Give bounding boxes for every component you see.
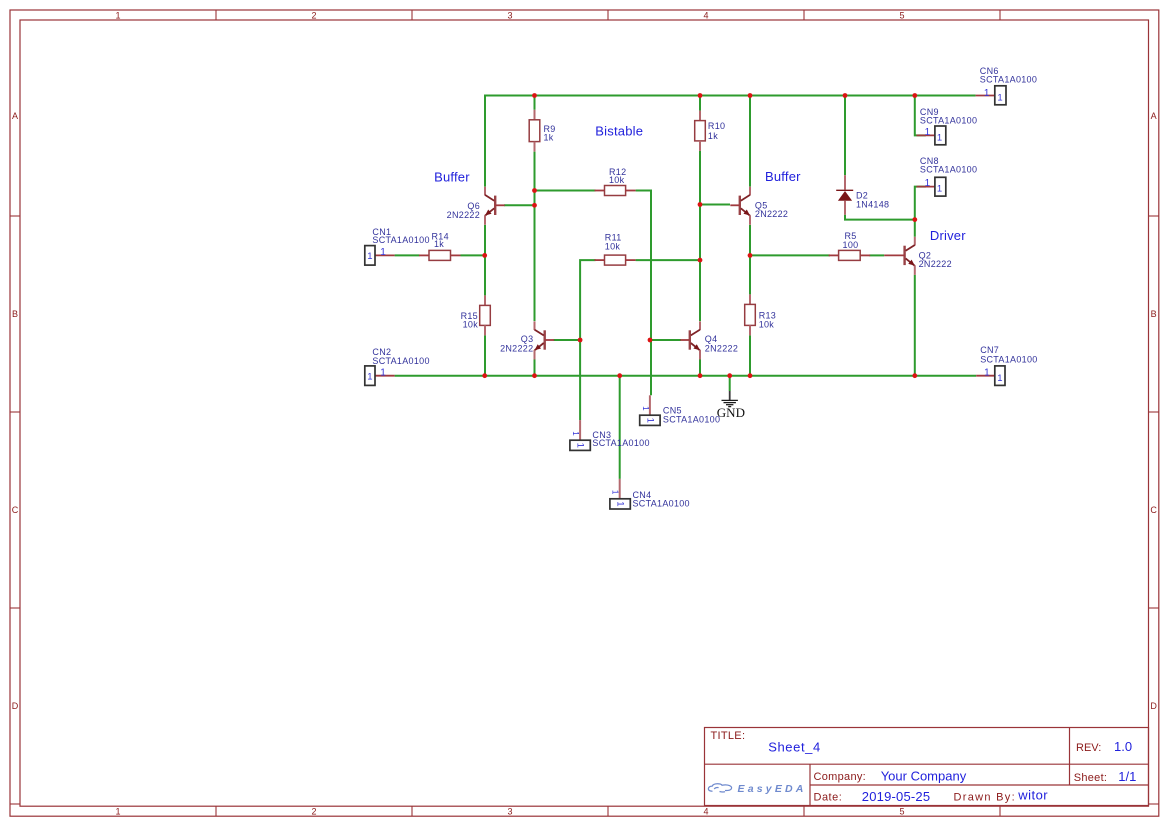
svg-text:1: 1 xyxy=(925,127,931,138)
junction bottom rail / Q3 emitter xyxy=(532,373,537,378)
label D2 value xyxy=(856,191,889,210)
svg-text:SCTA1A0100: SCTA1A0100 xyxy=(372,356,429,366)
resistor R11 xyxy=(595,255,636,265)
svg-text:1: 1 xyxy=(367,251,373,262)
title block drawn by value witor xyxy=(1017,787,1048,802)
svg-text:D: D xyxy=(1150,701,1157,711)
junction bottom rail / Q2 emitter xyxy=(912,373,917,378)
svg-text:1: 1 xyxy=(614,501,625,506)
svg-text:Buffer: Buffer xyxy=(765,169,801,184)
wire node to R5 xyxy=(749,254,830,256)
connector CN8 xyxy=(917,177,946,196)
svg-text:B: B xyxy=(12,309,18,319)
resistor R12 xyxy=(595,186,636,196)
title block Sheet value 1/1 xyxy=(1118,769,1136,784)
svg-text:1: 1 xyxy=(380,368,386,379)
svg-text:3: 3 xyxy=(507,10,512,20)
svg-text:SCTA1A0100: SCTA1A0100 xyxy=(592,438,649,448)
label Q5 value xyxy=(755,200,788,219)
svg-text:2: 2 xyxy=(311,807,316,817)
svg-text:1: 1 xyxy=(611,490,620,495)
svg-text:1: 1 xyxy=(115,807,120,817)
svg-text:2N2222: 2N2222 xyxy=(755,209,788,219)
svg-text:1: 1 xyxy=(997,93,1003,104)
junction bottom rail / R13 xyxy=(748,373,753,378)
junction bottom rail / R15 xyxy=(482,373,487,378)
pin number CN9 outside xyxy=(925,127,931,138)
diode D2 xyxy=(836,175,853,215)
title block Date label xyxy=(814,792,843,804)
wire CN8 elbow down to Q2 collector xyxy=(915,187,926,237)
svg-text:SCTA1A0100: SCTA1A0100 xyxy=(920,116,977,126)
junction Q5 emitter / R5 xyxy=(748,253,753,258)
annotation Buffer left xyxy=(434,170,470,185)
wire R10 to Q4 collector xyxy=(699,151,701,321)
wire top rail xyxy=(485,95,976,97)
svg-text:10k: 10k xyxy=(759,319,775,329)
pin number CN8 outside xyxy=(925,178,931,189)
wire Q4 emitter to bottom rail xyxy=(699,360,701,376)
title block company value Your Company xyxy=(881,768,967,783)
connector CN9 xyxy=(917,126,946,145)
svg-text:1k: 1k xyxy=(434,239,444,249)
svg-text:R10: R10 xyxy=(708,121,725,131)
wire bottom rail xyxy=(395,375,977,377)
label R12 value xyxy=(609,167,626,185)
pin number CN3 inside xyxy=(574,443,585,448)
wire CN1 to R14 xyxy=(395,254,420,256)
svg-text:Sheet_4: Sheet_4 xyxy=(768,740,821,755)
svg-text:2N2222: 2N2222 xyxy=(500,343,533,353)
label R14 value xyxy=(432,231,449,249)
connector CN7 xyxy=(976,366,1005,386)
wire Q3 base xyxy=(554,339,582,341)
frame row labels right xyxy=(1150,111,1157,711)
resistor R13 xyxy=(745,294,756,335)
svg-text:SCTA1A0100: SCTA1A0100 xyxy=(633,499,690,509)
frame column ticks top xyxy=(216,10,1000,20)
svg-text:A: A xyxy=(1151,111,1157,121)
junction top rail / CN9 xyxy=(912,93,917,98)
svg-text:1k: 1k xyxy=(708,131,718,141)
svg-text:1: 1 xyxy=(641,406,650,411)
title block outline xyxy=(705,728,1149,806)
wire Q5 base xyxy=(699,204,730,206)
wire R14 to node xyxy=(461,254,487,256)
wire top rail to CN9 xyxy=(915,95,926,136)
label CN9 xyxy=(920,107,977,125)
svg-text:Driver: Driver xyxy=(930,228,966,243)
wire Q6 emitter down xyxy=(484,225,486,296)
title block date value 2019-05-25 xyxy=(862,789,931,804)
wire D2 anode elbow to node xyxy=(845,215,916,220)
wire R9 to Q3 collector xyxy=(534,152,536,322)
svg-text:witor: witor xyxy=(1017,787,1048,802)
junction bottom rail / Q4 emitter xyxy=(698,373,703,378)
title block Drawn By label xyxy=(954,792,1016,804)
label Q2 value xyxy=(919,251,952,270)
svg-text:Company:: Company: xyxy=(814,771,867,783)
annotation Driver xyxy=(930,228,966,243)
svg-text:100: 100 xyxy=(843,240,859,250)
transistor Q4 xyxy=(680,321,700,359)
svg-text:2N2222: 2N2222 xyxy=(919,259,952,269)
resistor R14 xyxy=(419,250,461,260)
pin number CN2 inside xyxy=(367,372,373,383)
connector CN3 xyxy=(570,420,590,450)
annotation Bistable xyxy=(595,124,643,139)
junction top rail / R9 xyxy=(532,93,537,98)
transistor Q3 xyxy=(535,321,555,359)
junction bottom rail / GND xyxy=(727,373,732,378)
svg-text:1: 1 xyxy=(367,372,373,383)
svg-text:D: D xyxy=(12,701,19,711)
title block REV label xyxy=(1076,742,1101,754)
connector CN1 xyxy=(365,246,395,266)
svg-text:1: 1 xyxy=(115,10,120,20)
label CN8 xyxy=(920,156,977,174)
wire Q6 base xyxy=(504,204,536,206)
svg-text:1N4148: 1N4148 xyxy=(856,199,889,209)
title block REV value 1.0 xyxy=(1114,739,1132,754)
svg-text:1: 1 xyxy=(937,184,943,195)
frame row ticks right xyxy=(1149,216,1159,804)
ground GND xyxy=(722,391,738,407)
transistor Q5 xyxy=(730,187,750,225)
resistor R10 xyxy=(695,111,706,151)
wire Q2 emitter to bottom rail xyxy=(914,275,916,376)
svg-text:1: 1 xyxy=(574,443,585,448)
resistor R15 xyxy=(480,295,491,335)
EasyEDA logo xyxy=(708,783,806,795)
wire Q5 emitter to R13 xyxy=(749,225,751,295)
wire R15 to bottom rail xyxy=(484,335,486,375)
svg-text:1: 1 xyxy=(997,373,1003,384)
label R5 value xyxy=(843,231,859,250)
svg-text:1k: 1k xyxy=(544,133,554,143)
pin number CN7 inside xyxy=(997,373,1003,384)
wire node to R12 xyxy=(535,190,596,192)
frame column labels bottom xyxy=(115,807,904,817)
pin number CN3 outside xyxy=(571,431,580,436)
svg-text:SCTA1A0100: SCTA1A0100 xyxy=(663,414,720,424)
label CN4 xyxy=(633,490,690,509)
connector CN5 xyxy=(640,395,660,425)
transistor Q2 xyxy=(884,237,915,275)
wire R13 to bottom rail xyxy=(749,335,751,375)
svg-text:1: 1 xyxy=(571,431,580,436)
junction top rail / D2 xyxy=(843,93,848,98)
junction R14 / Q6 emitter xyxy=(482,253,487,258)
svg-text:SCTA1A0100: SCTA1A0100 xyxy=(920,164,977,174)
pin number CN4 inside xyxy=(614,501,625,506)
svg-text:C: C xyxy=(1150,505,1157,515)
wire Q6 collector to top rail xyxy=(484,95,486,187)
title block divider vertical right xyxy=(1069,728,1071,786)
label GND xyxy=(717,405,745,420)
label R11 value xyxy=(605,232,622,251)
junction bottom rail / CN4 xyxy=(617,373,622,378)
pin number CN1 inside xyxy=(367,251,373,262)
wire top rail to R9 xyxy=(534,95,536,110)
junction top rail / Q5 collector xyxy=(748,93,753,98)
title block divider horizontal 2 xyxy=(810,784,1149,786)
svg-text:4: 4 xyxy=(703,807,708,817)
svg-text:Sheet:: Sheet: xyxy=(1074,772,1108,784)
pin number CN6 inside xyxy=(997,93,1003,104)
pin number CN7 outside xyxy=(984,368,990,379)
wire top rail to R10 xyxy=(699,95,701,111)
pin number CN5 inside xyxy=(644,418,655,423)
pin number CN8 inside xyxy=(937,184,943,195)
svg-text:10k: 10k xyxy=(463,320,479,330)
pin number CN2 outside xyxy=(380,368,386,379)
svg-text:2019-05-25: 2019-05-25 xyxy=(862,789,931,804)
wire Q3 emitter to bottom rail xyxy=(534,360,536,376)
title block divider vertical left xyxy=(809,764,811,805)
title block sheet name Sheet_4 xyxy=(768,740,821,755)
svg-text:1: 1 xyxy=(984,368,990,379)
svg-text:GND: GND xyxy=(717,405,745,420)
label CN7 xyxy=(980,345,1037,364)
label R15 value xyxy=(461,311,479,329)
svg-text:REV:: REV: xyxy=(1076,742,1101,754)
wire R5 to Q2 base xyxy=(869,254,884,256)
svg-text:2N2222: 2N2222 xyxy=(705,343,738,353)
resistor R5 xyxy=(829,250,871,260)
wire R12 right elbow down to CN5 xyxy=(636,191,651,396)
label CN3 xyxy=(592,430,649,448)
pin number CN4 outside xyxy=(611,490,620,495)
frame column labels top xyxy=(115,10,904,20)
svg-text:4: 4 xyxy=(703,10,708,20)
frame column ticks bottom xyxy=(216,806,1000,816)
svg-text:1/1: 1/1 xyxy=(1118,769,1136,784)
title block divider horizontal 1 xyxy=(705,763,1149,765)
junction R9 / R12 xyxy=(532,188,537,193)
label CN5 xyxy=(663,406,720,425)
svg-text:Your Company: Your Company xyxy=(881,768,967,783)
wire top rail to D2 xyxy=(844,95,846,176)
svg-text:5: 5 xyxy=(899,10,904,20)
label CN2 xyxy=(372,347,429,366)
wire R11 right to node xyxy=(636,259,701,261)
junction Q5 base / R10 xyxy=(698,202,703,207)
wire R11 left elbow down to CN3 xyxy=(580,260,596,420)
svg-text:1.0: 1.0 xyxy=(1114,739,1132,754)
junction Q6 base / Q3 collector xyxy=(532,203,537,208)
svg-text:10k: 10k xyxy=(605,242,621,252)
pin number CN6 outside xyxy=(984,88,990,99)
svg-text:5: 5 xyxy=(899,807,904,817)
svg-text:Date:: Date: xyxy=(814,792,843,804)
svg-text:2N2222: 2N2222 xyxy=(447,210,480,220)
svg-text:SCTA1A0100: SCTA1A0100 xyxy=(980,74,1037,84)
svg-text:B: B xyxy=(1151,309,1157,319)
svg-text:SCTA1A0100: SCTA1A0100 xyxy=(372,235,429,245)
svg-text:10k: 10k xyxy=(609,175,625,185)
svg-text:1: 1 xyxy=(925,178,931,189)
svg-text:TITLE:: TITLE: xyxy=(711,730,746,742)
wire Q4 base xyxy=(649,339,681,341)
connector CN6 xyxy=(976,86,1006,105)
svg-text:A: A xyxy=(12,111,18,121)
label R9 value xyxy=(544,124,556,142)
label Q4 value xyxy=(705,334,738,353)
connector CN2 xyxy=(365,366,395,386)
svg-text:2: 2 xyxy=(311,10,316,20)
title block TITLE label xyxy=(711,730,746,742)
svg-text:3: 3 xyxy=(507,807,512,817)
wire Q5 collector to top rail xyxy=(749,95,751,187)
title block Company label xyxy=(814,771,867,783)
svg-text:EasyEDA: EasyEDA xyxy=(738,783,807,795)
svg-text:Bistable: Bistable xyxy=(595,124,643,139)
title block Sheet label xyxy=(1074,772,1108,784)
pin number CN1 outside xyxy=(380,247,386,258)
svg-text:1: 1 xyxy=(937,132,943,143)
junction Q3 base / R11 net xyxy=(578,338,583,343)
annotation Buffer right xyxy=(765,169,801,184)
label R13 value xyxy=(759,310,776,329)
transistor Q6 xyxy=(485,187,505,225)
svg-text:Drawn By:: Drawn By: xyxy=(954,792,1016,804)
junction R11 / R10 net xyxy=(698,258,703,263)
label Q3 value xyxy=(500,334,533,353)
wire bottom rail to CN4 xyxy=(619,375,621,479)
resistor R9 xyxy=(529,110,540,152)
svg-text:1: 1 xyxy=(644,418,655,423)
junction top rail / R10 xyxy=(698,93,703,98)
junction D2 / CN8 / Q2 collector xyxy=(912,217,917,222)
label CN1 xyxy=(372,227,429,245)
label CN6 xyxy=(980,66,1037,85)
svg-text:Buffer: Buffer xyxy=(434,170,470,185)
label Q6 value xyxy=(447,201,480,220)
wire bottom rail to GND xyxy=(729,375,731,391)
svg-text:SCTA1A0100: SCTA1A0100 xyxy=(980,354,1037,364)
frame row labels left xyxy=(12,111,19,711)
svg-text:C: C xyxy=(12,505,19,515)
svg-text:1: 1 xyxy=(984,88,990,99)
pin number CN5 outside xyxy=(641,406,650,411)
connector CN4 xyxy=(610,479,630,509)
pin number CN9 inside xyxy=(937,132,943,143)
label R10 value xyxy=(708,121,725,141)
junction Q4 base / R12 net xyxy=(648,338,653,343)
svg-text:1: 1 xyxy=(380,247,386,258)
frame row ticks left xyxy=(10,216,20,804)
